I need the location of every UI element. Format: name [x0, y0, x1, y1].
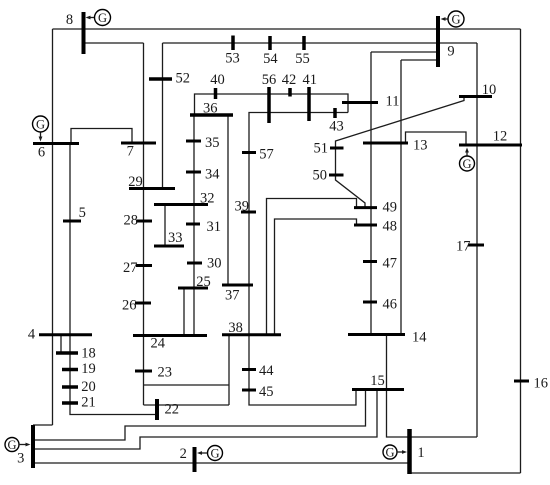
wire 13-12 connector [406, 132, 467, 145]
svg-text:30: 30 [207, 256, 222, 272]
wire 9-13 horizontal [401, 59, 437, 61]
wire 51-50 [335, 148, 337, 175]
wire left vertical 3-4-6 [52, 29, 54, 425]
wire 24-25 circuit 1 [183, 288, 185, 336]
svg-text:31: 31 [207, 219, 222, 235]
bus 43 [329, 108, 344, 135]
svg-text:39: 39 [235, 199, 250, 215]
svg-text:4: 4 [28, 327, 36, 343]
svg-text:50: 50 [313, 168, 328, 184]
svg-text:37: 37 [225, 288, 240, 304]
svg-text:38: 38 [228, 320, 243, 336]
wire 6-7 connector [71, 129, 132, 144]
svg-text:56: 56 [262, 72, 277, 88]
svg-text:19: 19 [81, 361, 96, 377]
wire 3-2-1 bottom [33, 462, 410, 464]
bus 7 [121, 143, 156, 160]
svg-text:23: 23 [158, 365, 173, 381]
svg-text:G: G [98, 11, 107, 25]
bus 51 [314, 141, 344, 157]
svg-text:32: 32 [200, 191, 215, 207]
bus 2 [180, 446, 195, 472]
wire 38-22 vertical [228, 335, 230, 405]
svg-text:33: 33 [168, 230, 183, 246]
wire bottom right to bus1 [411, 472, 521, 474]
bus 48 [354, 219, 397, 235]
svg-text:34: 34 [205, 167, 220, 183]
bus 24 [133, 336, 207, 352]
bus 4 [28, 327, 92, 343]
bus 31 [186, 219, 221, 235]
wire 12-17-1 vertical [476, 43, 478, 437]
svg-text:27: 27 [123, 260, 138, 276]
bus 23 [135, 365, 172, 381]
generator G at bus 12 [460, 148, 475, 172]
bus 36 [190, 101, 233, 117]
wire 36-35-34-32-31-30-25 vertical [193, 115, 195, 288]
wire 22 loop bottom [144, 404, 230, 406]
wire 52-53-54-55-9 [163, 42, 478, 44]
svg-text:12: 12 [493, 129, 508, 145]
svg-text:22: 22 [165, 402, 180, 418]
bus 11 [342, 94, 399, 110]
wire top 8-9-12 [53, 28, 521, 30]
svg-text:15: 15 [370, 373, 385, 389]
generator G at bus 9 [441, 11, 465, 27]
wire 13-14 vertical [400, 60, 402, 335]
svg-text:47: 47 [383, 256, 398, 272]
svg-text:45: 45 [259, 384, 274, 400]
wire 8-7 [84, 42, 144, 44]
wire long vertical 7-29-28-27-26-24-23 [143, 43, 145, 405]
svg-text:8: 8 [66, 12, 73, 28]
svg-text:16: 16 [534, 376, 549, 392]
svg-text:44: 44 [259, 363, 274, 379]
wire 38-48 [275, 219, 357, 335]
svg-text:10: 10 [482, 82, 497, 98]
bus 50 [313, 168, 344, 184]
svg-text:G: G [36, 118, 45, 132]
svg-text:G: G [462, 157, 471, 171]
bus 6 [33, 144, 79, 161]
bus 9 [438, 16, 455, 67]
bus 39 [235, 199, 257, 215]
bus 28 [124, 213, 153, 229]
bus 53 [225, 36, 240, 67]
wire 22 loop top [144, 384, 230, 386]
wire 4-18 second circuit [60, 335, 62, 353]
bus 55 [295, 36, 310, 67]
bus 44 [242, 363, 274, 379]
wire 24-25 circuit 2 [193, 288, 195, 336]
svg-text:2: 2 [180, 446, 187, 462]
svg-text:53: 53 [225, 51, 240, 67]
bus 40 [210, 72, 225, 99]
wire 15-3 staircase 1 [33, 390, 366, 441]
bus 21 [62, 395, 96, 411]
svg-text:G: G [451, 13, 460, 27]
bus 18 [56, 346, 96, 362]
svg-text:42: 42 [282, 72, 297, 88]
wire 10-51 diagonal [336, 97, 465, 148]
generator G at bus 6 [33, 116, 49, 142]
svg-text:28: 28 [124, 213, 139, 229]
bus 27 [123, 260, 152, 276]
bus 47 [363, 256, 397, 272]
svg-text:48: 48 [383, 219, 398, 235]
bus 45 [242, 384, 274, 400]
svg-text:21: 21 [81, 395, 96, 411]
wire bus3 top link [33, 424, 53, 426]
svg-text:20: 20 [81, 379, 96, 395]
wire 6-5-4-18-19-20-21-22 [70, 144, 157, 415]
bus 10 [459, 82, 496, 98]
bus 42 [282, 72, 297, 97]
svg-text:9: 9 [447, 44, 454, 60]
bus 12 [459, 129, 522, 146]
bus 29 [128, 174, 175, 190]
generator G at bus 2 [197, 446, 223, 461]
wire 52-29 vertical [162, 43, 164, 189]
svg-text:55: 55 [295, 51, 310, 67]
wire 36-37 [227, 115, 229, 285]
svg-text:41: 41 [302, 72, 317, 88]
bus 37 [222, 285, 253, 304]
svg-text:3: 3 [17, 451, 24, 467]
bus 14 [348, 330, 427, 346]
svg-text:11: 11 [386, 94, 400, 110]
generator G at bus 3 [5, 438, 31, 453]
generator G at bus 8 [86, 10, 111, 26]
bus 1 [410, 429, 425, 474]
svg-text:46: 46 [383, 297, 398, 313]
bus 17 [456, 239, 484, 255]
svg-text:43: 43 [329, 119, 344, 135]
wire 50-49 diagonal [336, 175, 366, 208]
wire 9-11 horizontal [371, 51, 437, 53]
bus 57 [242, 147, 274, 163]
svg-text:G: G [7, 438, 16, 452]
bus 13 [363, 138, 428, 154]
svg-text:26: 26 [122, 298, 137, 314]
svg-text:6: 6 [38, 145, 45, 161]
svg-text:49: 49 [383, 200, 398, 216]
bus 25 [178, 274, 211, 290]
bus 30 [187, 256, 222, 272]
wire 36-40-56-42-41-11 [195, 94, 349, 115]
svg-text:36: 36 [203, 101, 218, 117]
wire 11-13-49-48-47-46-14 vertical [370, 52, 372, 335]
bus 15 [352, 373, 404, 390]
bus 52 [149, 71, 190, 87]
wire 15-3 staircase 2 [33, 390, 377, 450]
bus 46 [363, 297, 397, 313]
wire 38-44-45-15 [249, 335, 356, 405]
svg-text:7: 7 [127, 144, 134, 160]
svg-text:25: 25 [196, 274, 211, 290]
bus 5 [63, 205, 86, 221]
wire 38-49 [267, 199, 357, 335]
bus 8 [66, 12, 84, 54]
svg-text:5: 5 [79, 205, 86, 221]
generator G at bus 1 [383, 445, 407, 460]
bus 3 [17, 425, 33, 468]
wire 14-15-1-17 [387, 335, 478, 438]
bus 16 [514, 376, 548, 392]
svg-text:G: G [210, 447, 219, 461]
svg-text:54: 54 [263, 51, 278, 67]
wire 57-56-41-43 [249, 113, 348, 335]
bus 19 [62, 361, 96, 377]
bus 33 [154, 230, 184, 246]
bus 22 [157, 399, 179, 420]
svg-text:35: 35 [205, 135, 220, 151]
bus 32 [154, 191, 215, 207]
svg-text:1: 1 [417, 445, 424, 461]
svg-text:G: G [385, 446, 394, 460]
bus 34 [186, 167, 220, 183]
svg-text:51: 51 [314, 141, 329, 157]
svg-text:52: 52 [176, 71, 191, 87]
bus 26 [122, 298, 151, 314]
wire right edge 12-16-1 [520, 29, 522, 473]
svg-text:13: 13 [413, 138, 428, 154]
bus 20 [62, 379, 96, 395]
svg-text:40: 40 [210, 72, 225, 88]
bus 41 [302, 72, 317, 121]
svg-text:29: 29 [128, 174, 143, 190]
bus 38 [222, 320, 281, 336]
bus 54 [263, 36, 278, 67]
svg-text:18: 18 [81, 346, 96, 362]
svg-text:24: 24 [151, 336, 166, 352]
svg-text:17: 17 [456, 239, 471, 255]
bus 49 [354, 200, 397, 216]
wire 32-33 [164, 205, 166, 247]
svg-text:57: 57 [259, 147, 274, 163]
svg-text:14: 14 [412, 330, 427, 346]
bus 35 [186, 135, 220, 151]
bus 56 [262, 72, 277, 123]
